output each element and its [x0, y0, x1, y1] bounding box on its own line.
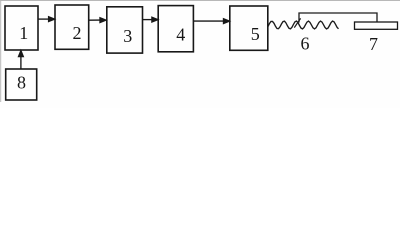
svg-text:7: 7	[369, 34, 378, 54]
svg-text:3: 3	[123, 26, 132, 46]
svg-text:4: 4	[176, 25, 185, 45]
svg-text:5: 5	[251, 24, 260, 44]
svg-text:8: 8	[17, 73, 26, 93]
svg-text:1: 1	[19, 23, 28, 43]
svg-text:2: 2	[73, 23, 82, 43]
svg-text:6: 6	[301, 33, 310, 53]
